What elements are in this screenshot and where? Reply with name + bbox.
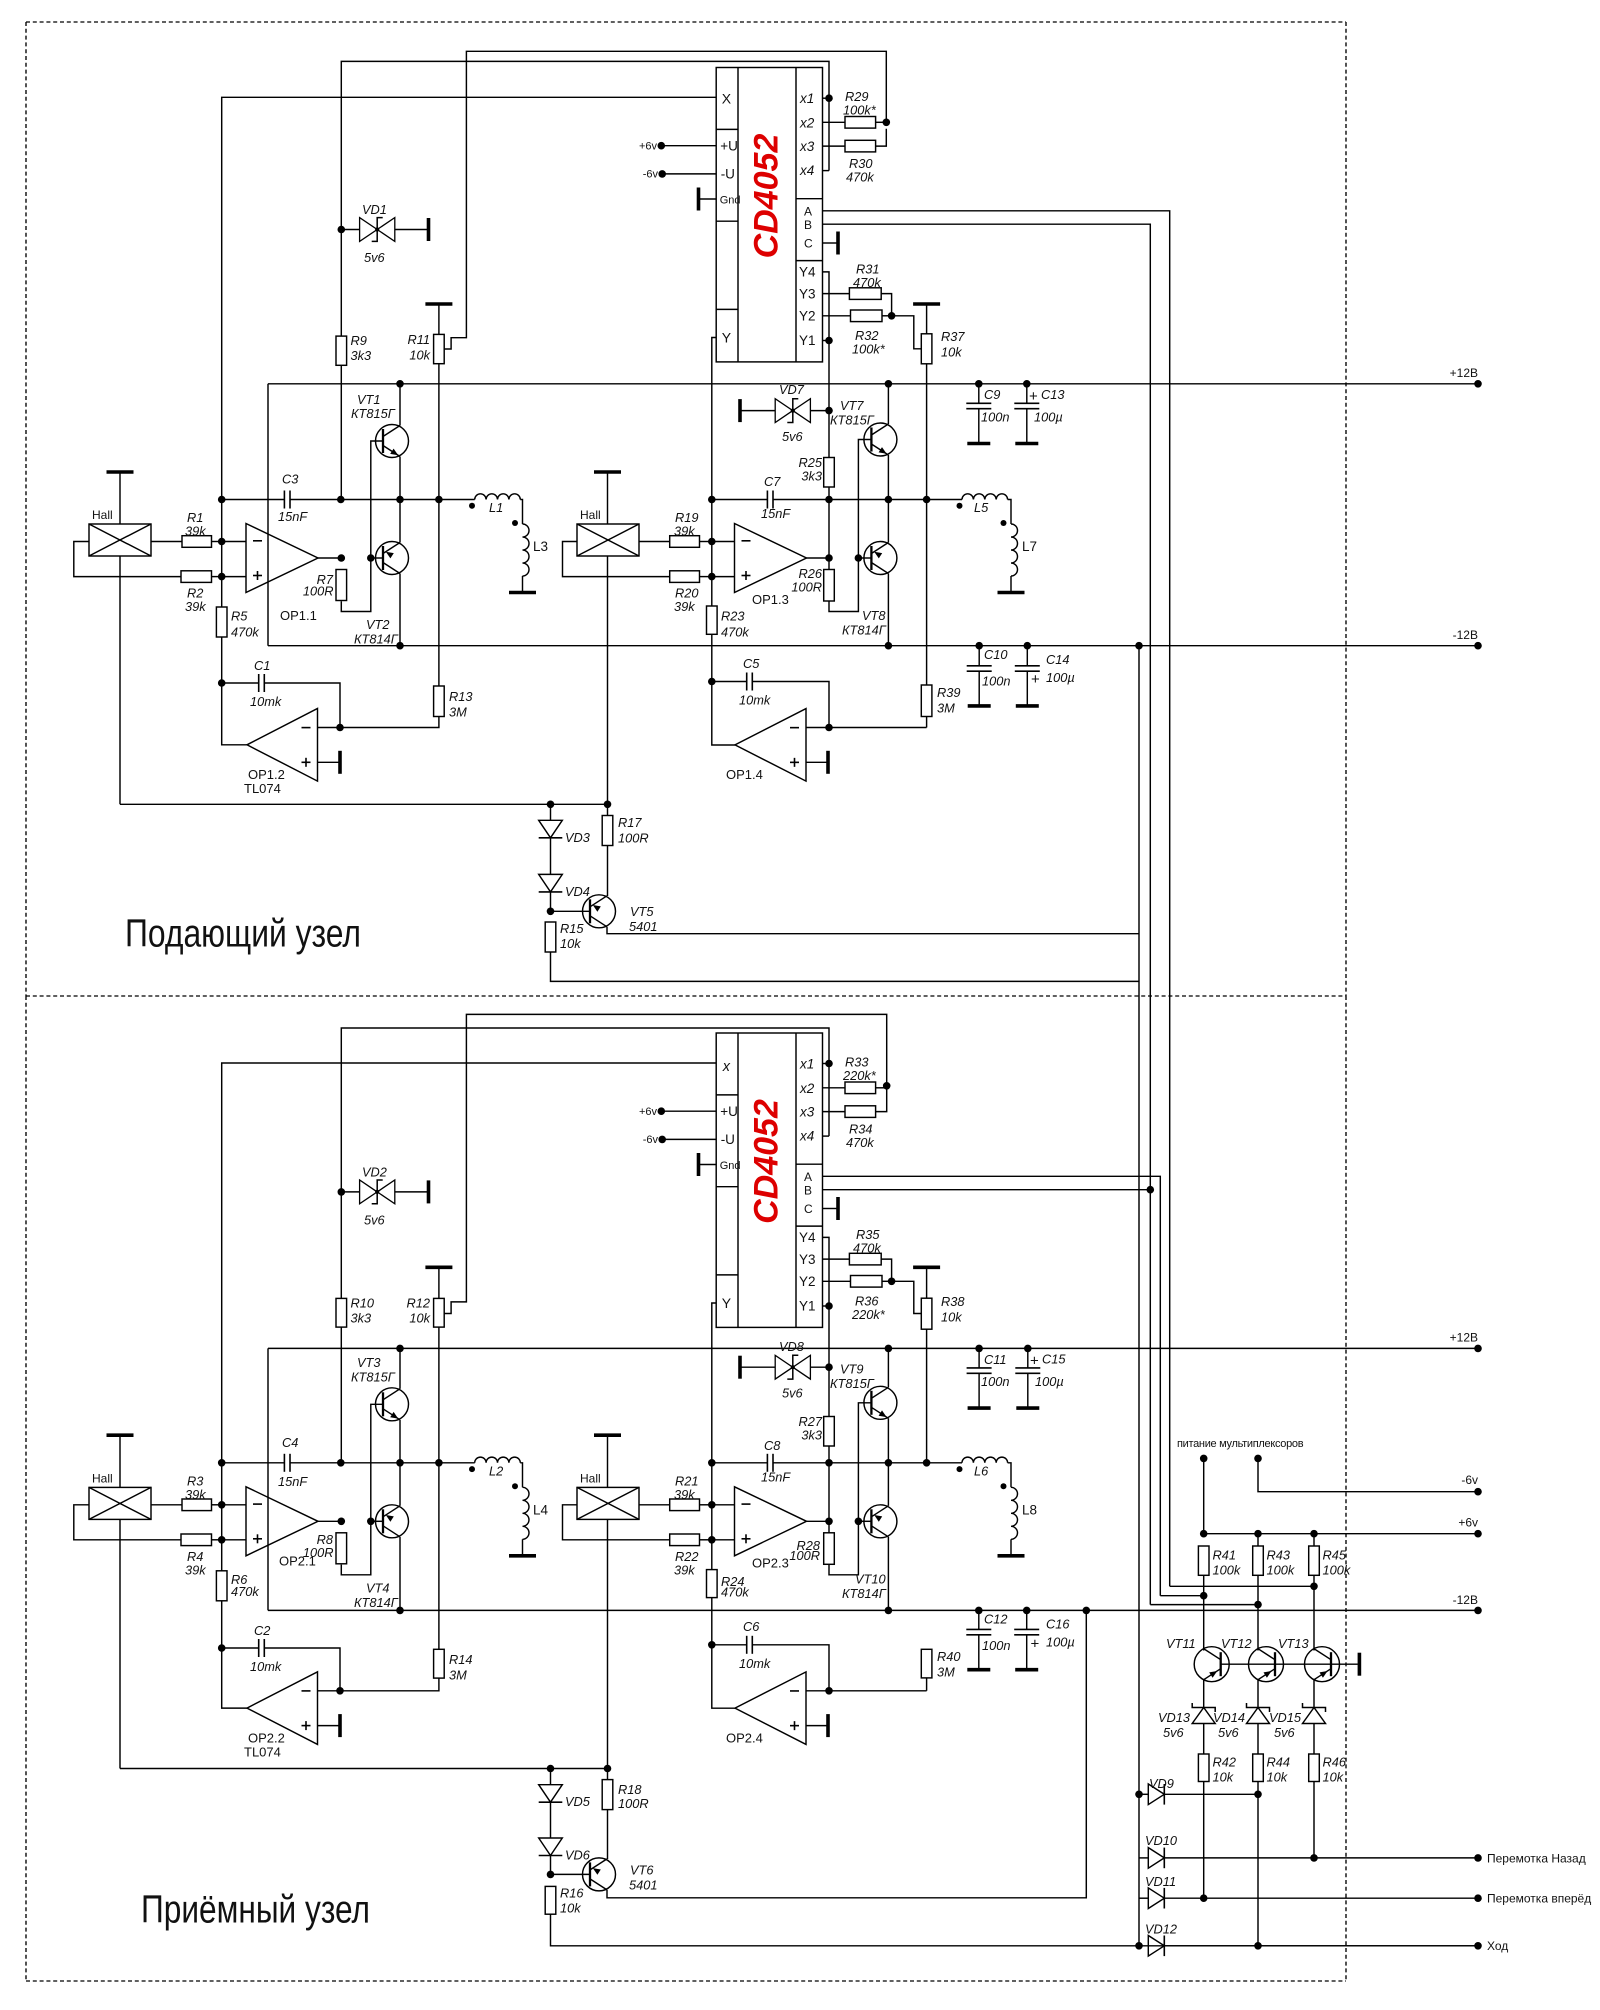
- svg-text:10mk: 10mk: [739, 1656, 771, 1671]
- wire R42 down to VD11 row: [1203, 1782, 1205, 1899]
- wire C13 bottom: [1026, 409, 1028, 444]
- svg-text:VT10: VT10: [855, 1571, 886, 1586]
- wire OP1.4 minus input: [806, 727, 927, 729]
- node L8 winding dot: [1001, 1483, 1007, 1489]
- wire R37 down to emitter junction / R39: [926, 364, 928, 685]
- svg-text:C16: C16: [1046, 1617, 1070, 1632]
- node supply terminal 2: [1254, 1455, 1262, 1463]
- inductor L6: [962, 1457, 1008, 1463]
- ground under C9: [967, 442, 990, 446]
- wire OP2.4 plus input: [806, 1725, 828, 1727]
- section border top (Подающий узел): [26, 22, 1346, 996]
- transistor VT6 5401: [583, 1858, 616, 1891]
- svg-text:VT1: VT1: [357, 392, 380, 407]
- svg-text:VD9: VD9: [1149, 1776, 1174, 1791]
- resistor R33 220k*: [845, 1082, 876, 1094]
- svg-text:x2: x2: [799, 115, 815, 130]
- svg-text:5401: 5401: [629, 919, 657, 934]
- wire VT1 collector: [399, 384, 401, 426]
- resistor R39 3M: [921, 685, 932, 717]
- wire pin x3 to R30: [823, 145, 846, 147]
- op-amp OP2.1: [246, 1487, 318, 1556]
- svg-text:-12В: -12В: [1453, 628, 1478, 642]
- svg-text:VD13: VD13: [1158, 1710, 1190, 1725]
- svg-text:Перемотка вперёд: Перемотка вперёд: [1487, 1892, 1591, 1906]
- wire Gnd pin: [700, 198, 716, 200]
- node R29/R30 junction: [883, 119, 891, 127]
- svg-text:10k: 10k: [409, 1311, 430, 1326]
- wire C8 right: [773, 1462, 829, 1464]
- wire bottom inner (VD2 node to x1/x4): [341, 1028, 829, 1192]
- resistor R16 10k: [545, 1886, 556, 1914]
- wire gnd to R37: [926, 304, 928, 334]
- resistor R42 10k: [1198, 1754, 1209, 1782]
- +12V rail (top): [268, 383, 1478, 385]
- node VT7 collector rail junction: [885, 380, 893, 388]
- transistor VT13: [1305, 1647, 1340, 1682]
- wire VD1 node to R9: [340, 230, 342, 337]
- resistor R46 10k: [1309, 1754, 1320, 1782]
- svg-text:-6v: -6v: [643, 1134, 659, 1146]
- wire C16 top: [1026, 1610, 1028, 1629]
- ground under C11: [968, 1406, 991, 1410]
- node Y column minus junction: [708, 538, 716, 546]
- wire gnd to R12: [438, 1267, 440, 1298]
- svg-text:100k: 100k: [1213, 1563, 1241, 1578]
- node VT8 collector rail junction: [885, 642, 893, 650]
- wire VT7 collector: [887, 384, 889, 424]
- svg-text:3M: 3M: [937, 701, 955, 716]
- wire R23 to C5 node: [711, 634, 713, 681]
- +6v rail (bottom right): [1204, 1533, 1478, 1535]
- svg-text:КТ815Г: КТ815Г: [351, 406, 396, 421]
- zener VD7 5v6: [775, 399, 793, 423]
- svg-text:39k: 39k: [674, 524, 695, 539]
- svg-text:Gnd: Gnd: [720, 1160, 741, 1172]
- wire VD1 left lead: [341, 229, 359, 231]
- svg-text:100k*: 100k*: [843, 103, 877, 118]
- wire VT11 emitter to VD13: [1203, 1680, 1205, 1708]
- svg-text:3k3: 3k3: [351, 1311, 372, 1326]
- svg-text:L6: L6: [974, 1464, 989, 1479]
- capacitor C1 10mk: [258, 674, 260, 692]
- wire VD2 node to R10: [340, 1192, 342, 1299]
- resistor R19 39k: [670, 536, 700, 548]
- svg-text:R14: R14: [449, 1652, 472, 1667]
- wire VD12 right lead: [1164, 1945, 1478, 1947]
- wire C12 top: [978, 1610, 980, 1629]
- wire bottom outer (x1/x4 feedback to R12 wiper): [444, 1014, 887, 1313]
- wire R13 column: [438, 500, 440, 687]
- svg-text:КТ814Г: КТ814Г: [354, 632, 399, 647]
- svg-text:+U: +U: [720, 139, 738, 154]
- svg-text:100µ: 100µ: [1035, 1374, 1064, 1389]
- svg-text:CD4052: CD4052: [748, 1099, 786, 1224]
- wire R24 to C6 node: [711, 1598, 713, 1645]
- ground above R37: [913, 302, 940, 306]
- node VT12 collector junction: [1254, 1601, 1262, 1609]
- resistor R43 100k: [1253, 1546, 1264, 1575]
- svg-text:R42: R42: [1213, 1755, 1236, 1770]
- svg-text:VD11: VD11: [1145, 1874, 1176, 1889]
- wire Hall2 left loop to R20: [563, 542, 670, 577]
- wire VD9 leads: [1139, 1793, 1148, 1795]
- capacitor C2 10mk: [258, 1639, 260, 1657]
- wire R40 bottom: [926, 1678, 928, 1691]
- inductor L7: [1011, 524, 1018, 576]
- svg-text:5v6: 5v6: [782, 429, 804, 444]
- wire R16 bottom (Ход row): [551, 1914, 1479, 1946]
- node VD3 rail junction: [547, 801, 555, 809]
- resistor R30 470k: [845, 140, 876, 152]
- wire R7 bottom to base feed: [341, 441, 383, 612]
- zener VD2 5v6: [360, 1180, 378, 1204]
- trimmer R37 10k: [921, 334, 932, 364]
- node C6 left junction: [708, 1641, 716, 1649]
- wire VT2 collector: [399, 574, 401, 646]
- svg-text:КТ815Г: КТ815Г: [830, 1376, 875, 1391]
- diode VD5: [539, 1785, 563, 1803]
- svg-text:VD14: VD14: [1213, 1710, 1245, 1725]
- svg-text:VD10: VD10: [1145, 1833, 1178, 1848]
- svg-text:5v6: 5v6: [364, 250, 386, 265]
- wire C4 left: [222, 1462, 285, 1464]
- wire +6v to +U: [661, 145, 716, 147]
- wire C8 node to output node: [828, 1463, 830, 1522]
- wire VD11 right (Перемотка вперёд row): [1164, 1897, 1478, 1899]
- node -12В terminal (bottom): [1474, 1607, 1482, 1615]
- wire Y2 to R36: [823, 1280, 851, 1282]
- wire C14 top: [1026, 646, 1028, 666]
- wire Hall4 left loop to R22: [563, 1505, 670, 1540]
- wire C5 left: [712, 681, 747, 683]
- emitter junction wire (left channel): [341, 499, 475, 501]
- ground under C13: [1015, 442, 1038, 446]
- node L4 winding dot: [512, 1483, 518, 1489]
- svg-text:CD4052: CD4052: [748, 134, 786, 259]
- svg-text:C: C: [804, 1202, 813, 1216]
- capacitor C16 100u: [1014, 1628, 1039, 1630]
- zener VD13 5v6: [1192, 1708, 1215, 1724]
- node OP1.4 minus junction: [825, 724, 833, 732]
- node OP2.1 output junction: [338, 1518, 346, 1526]
- svg-text:100n: 100n: [982, 674, 1010, 689]
- svg-text:Hall: Hall: [580, 1471, 601, 1485]
- wire Y4 to Y1 tie (bottom): [823, 1237, 830, 1367]
- node R39 column junction: [923, 496, 931, 504]
- svg-text:C5: C5: [743, 656, 760, 671]
- capacitor C13 100u: [1014, 402, 1039, 404]
- wire R32 junction to R37 wiper: [882, 315, 892, 317]
- diode VD10: [1148, 1848, 1164, 1869]
- node C16 rail junction: [1023, 1607, 1031, 1615]
- wire A-bus stub to VT13 collector: [1170, 1585, 1314, 1587]
- wire C6 left: [712, 1644, 747, 1646]
- svg-text:10mk: 10mk: [739, 693, 771, 708]
- wire L7 bottom: [1010, 576, 1012, 593]
- svg-text:R40: R40: [937, 1649, 961, 1664]
- wire VD6 to base node: [550, 1856, 552, 1875]
- wire Hall3 left loop to R4: [74, 1505, 181, 1540]
- wire to OP1.3 plus: [712, 576, 735, 578]
- wire Y3 to R35: [823, 1258, 850, 1260]
- svg-text:C2: C2: [254, 1623, 270, 1638]
- node VT4 base junction: [367, 1518, 375, 1526]
- node C1 left junction: [218, 679, 226, 687]
- svg-text:100µ: 100µ: [1046, 670, 1075, 685]
- svg-text:КТ815Г: КТ815Г: [351, 1370, 396, 1385]
- svg-text:Y: Y: [722, 330, 732, 346]
- resistor R14 3M: [434, 1649, 445, 1678]
- capacitor C11 100n: [967, 1367, 992, 1369]
- svg-text:Y2: Y2: [799, 309, 816, 324]
- resistor R28 100R: [824, 1533, 835, 1565]
- node OP2.4 minus junction: [825, 1687, 833, 1695]
- node L5 winding dot: [957, 503, 963, 509]
- svg-text:3M: 3M: [449, 705, 467, 720]
- node R17 rail junction: [604, 801, 612, 809]
- wire OP1.4 plus input: [806, 761, 828, 763]
- node VT13 collector junction: [1310, 1583, 1318, 1591]
- wire B-bus stub to VT12 collector: [1150, 1604, 1258, 1606]
- node Y column C8 junction: [708, 1459, 716, 1467]
- diode VD9: [1148, 1784, 1164, 1805]
- svg-text:L2: L2: [489, 1464, 503, 1479]
- wire OP1.2 plus input: [318, 761, 341, 763]
- node VD7 junction: [825, 407, 833, 415]
- resistor R44 10k: [1253, 1754, 1264, 1782]
- svg-text:OP2.4: OP2.4: [726, 1731, 763, 1746]
- svg-text:R13: R13: [449, 689, 472, 704]
- wire C2 right: [264, 1648, 340, 1691]
- zener VD14 5v6: [1247, 1708, 1270, 1724]
- svg-text:-6v: -6v: [1461, 1473, 1478, 1487]
- wire L3 bottom: [522, 576, 524, 593]
- wire VT7 emitter: [887, 455, 889, 500]
- ground right of VD1: [427, 218, 431, 241]
- svg-text:+: +: [1029, 388, 1038, 405]
- wire L1 to L3: [520, 500, 522, 525]
- wire R41 to VT11: [1203, 1575, 1205, 1650]
- svg-text:A: A: [804, 1170, 812, 1184]
- svg-text:100R: 100R: [303, 1545, 334, 1560]
- svg-text:Ход: Ход: [1487, 1939, 1508, 1953]
- node VT7/VT8 emitter junction: [885, 496, 893, 504]
- svg-text:VT9: VT9: [840, 1362, 863, 1377]
- section border bottom (Приёмный узел): [26, 996, 1346, 1981]
- resistor R13 3M: [434, 686, 445, 717]
- svg-text:x1: x1: [799, 1057, 814, 1072]
- svg-text:R18: R18: [618, 1782, 642, 1797]
- wire supply 2 to -6v: [1258, 1458, 1478, 1491]
- node OP1.2 minus junction: [336, 724, 344, 732]
- wire C7 right: [773, 499, 829, 501]
- wire VD2 right lead: [395, 1191, 427, 1193]
- svg-text:470k: 470k: [853, 275, 881, 290]
- svg-text:5v6: 5v6: [1274, 1725, 1296, 1740]
- svg-text:100µ: 100µ: [1046, 1635, 1075, 1650]
- svg-text:15nF: 15nF: [278, 1474, 308, 1489]
- wire +6v to +U (bottom): [661, 1110, 716, 1112]
- wire VD5 to VD6: [550, 1802, 552, 1838]
- svg-text:R38: R38: [941, 1294, 965, 1309]
- node L7 winding dot: [1001, 520, 1007, 526]
- wire Hall2 right to R19: [639, 541, 670, 543]
- capacitor C3 15nF: [283, 491, 285, 509]
- node -6v output terminal: [1474, 1488, 1482, 1496]
- svg-text:+: +: [1030, 1353, 1039, 1370]
- node Y column minus junction (bottom): [708, 1501, 716, 1509]
- svg-text:VT12: VT12: [1221, 1636, 1252, 1651]
- svg-text:15nF: 15nF: [761, 506, 791, 521]
- wire R21 right: [700, 1504, 712, 1506]
- ground left of VD8: [738, 1356, 742, 1379]
- svg-text:Hall: Hall: [580, 508, 601, 522]
- wire VD8 right lead: [810, 1366, 829, 1368]
- resistor R29 100k*: [845, 117, 876, 129]
- svg-text:10k: 10k: [560, 936, 581, 951]
- inductor L8: [1011, 1487, 1018, 1539]
- node VT2 base junction: [367, 554, 375, 562]
- wire Y column to OP2.4 tip: [712, 1645, 735, 1708]
- svg-text:x2: x2: [799, 1081, 815, 1096]
- node C3 right junction: [337, 496, 345, 504]
- wire C11 top: [978, 1348, 980, 1368]
- wire Y pin to Y column: [712, 338, 716, 607]
- transistor VT1 KT815: [376, 425, 409, 458]
- svg-text:VT5: VT5: [630, 904, 654, 919]
- trimmer R11 10k: [434, 334, 445, 363]
- wire R39 bottom: [926, 717, 928, 728]
- svg-text:VD5: VD5: [565, 1794, 591, 1809]
- capacitor C9 100n: [966, 402, 991, 404]
- resistor R2 39k: [181, 571, 212, 583]
- wire VT9 emitter: [887, 1418, 889, 1463]
- node L6 winding dot: [957, 1466, 963, 1472]
- hall bottom rail (top half): [120, 803, 608, 805]
- wire B pin to bus: [823, 224, 1151, 1604]
- svg-text:+12В: +12В: [1450, 366, 1478, 380]
- ground at Gnd pin (bottom): [697, 1153, 701, 1176]
- wire Hall2 top: [607, 472, 609, 524]
- svg-text:C11: C11: [984, 1352, 1007, 1367]
- diode VD4: [539, 874, 563, 892]
- wire C5 right: [752, 682, 829, 728]
- svg-text:+6v: +6v: [639, 1106, 658, 1118]
- node +6v terminal (bottom): [658, 1107, 666, 1115]
- svg-text:+6v: +6v: [1458, 1516, 1478, 1530]
- ground at OP2.2 plus: [338, 1714, 342, 1737]
- node VT3 collector rail junction: [396, 1345, 404, 1353]
- svg-text:10k: 10k: [560, 1901, 581, 1916]
- wire R14 bottom to minus junction: [340, 1678, 439, 1691]
- wire C pin stub: [823, 242, 837, 244]
- node VT3/VT4 emitter junction: [396, 1459, 404, 1467]
- node R40 column junction: [923, 1459, 931, 1467]
- svg-text:R41: R41: [1213, 1548, 1236, 1563]
- svg-text:100k: 100k: [1267, 1563, 1295, 1578]
- svg-text:A: A: [804, 205, 812, 219]
- resistor R40 3M: [921, 1649, 932, 1678]
- resistor R9 3k3: [336, 336, 347, 365]
- svg-text:R46: R46: [1323, 1755, 1347, 1770]
- wire C10 bottom: [978, 671, 980, 706]
- ground at VT13 base: [1358, 1653, 1362, 1676]
- svg-text:+6v: +6v: [639, 141, 658, 153]
- svg-text:B: B: [804, 1183, 812, 1197]
- wire VT10 emitter: [887, 1463, 889, 1506]
- wire X pin to left column: [222, 97, 717, 607]
- svg-text:C3: C3: [282, 472, 298, 487]
- op-amp OP1.2: [247, 709, 318, 782]
- svg-text:R10: R10: [351, 1296, 375, 1311]
- svg-text:10k: 10k: [1213, 1770, 1234, 1785]
- svg-text:10mk: 10mk: [250, 1659, 282, 1674]
- wire R30 right: [876, 129, 887, 146]
- svg-text:5v6: 5v6: [1163, 1725, 1185, 1740]
- wire VD3 to VD4: [550, 838, 552, 875]
- node Перемотка Назад terminal: [1474, 1854, 1482, 1862]
- svg-text:VD15: VD15: [1269, 1710, 1302, 1725]
- transistor VT2 KT814: [376, 542, 409, 575]
- node R33/R34 junction: [883, 1082, 891, 1090]
- node x1/x4 tie: [825, 94, 833, 102]
- svg-text:Hall: Hall: [92, 1471, 113, 1485]
- wire R3 right: [212, 1504, 222, 1506]
- transistor VT12: [1249, 1647, 1284, 1682]
- node plus input junction: [218, 573, 226, 581]
- svg-text:L1: L1: [489, 500, 503, 515]
- wire C9 bottom: [978, 409, 980, 444]
- wire output node to R28: [828, 1521, 830, 1533]
- svg-text:VT4: VT4: [366, 1581, 389, 1596]
- wire to OP2.1 minus: [222, 1504, 246, 1506]
- svg-text:+12В: +12В: [1450, 1331, 1478, 1345]
- svg-text:OP1.3: OP1.3: [752, 592, 789, 607]
- wire Hall4 top: [607, 1435, 609, 1487]
- resistor R25 3k3: [824, 458, 835, 488]
- svg-text:x3: x3: [799, 1105, 815, 1120]
- svg-text:VD8: VD8: [779, 1339, 805, 1354]
- wire Y pin to Y column (bottom): [712, 1303, 716, 1570]
- wire output node to R26: [828, 558, 830, 570]
- wire OP1.1 output: [318, 557, 341, 559]
- op-amp OP1.4: [735, 709, 806, 782]
- svg-text:Y4: Y4: [799, 265, 816, 280]
- ground above Hall4: [594, 1433, 621, 1437]
- hall bottom rail (bottom half): [120, 1768, 608, 1770]
- capacitor C6 10mk: [746, 1636, 748, 1654]
- svg-text:VT2: VT2: [366, 617, 389, 632]
- svg-text:220k*: 220k*: [842, 1068, 877, 1083]
- wire R12 down through rail to emitter wire: [438, 1327, 440, 1463]
- resistor R26 100R: [824, 570, 835, 602]
- svg-text:470k: 470k: [853, 1241, 881, 1256]
- wire VD11 left lead: [1139, 1897, 1148, 1899]
- wire OP2.1 output: [318, 1520, 341, 1522]
- wire R45 top stub: [1313, 1534, 1315, 1546]
- ground under C15: [1016, 1406, 1039, 1410]
- wire C7 left: [712, 499, 768, 501]
- node C12 rail junction: [975, 1607, 983, 1615]
- wire VD8 node to R27: [828, 1367, 830, 1416]
- svg-text:10k: 10k: [1323, 1770, 1344, 1785]
- wire C3 left: [222, 499, 285, 501]
- svg-text:VD7: VD7: [779, 382, 805, 397]
- svg-text:C15: C15: [1042, 1352, 1066, 1367]
- wire Y3 to R31: [823, 293, 850, 295]
- inductor L2: [475, 1457, 521, 1463]
